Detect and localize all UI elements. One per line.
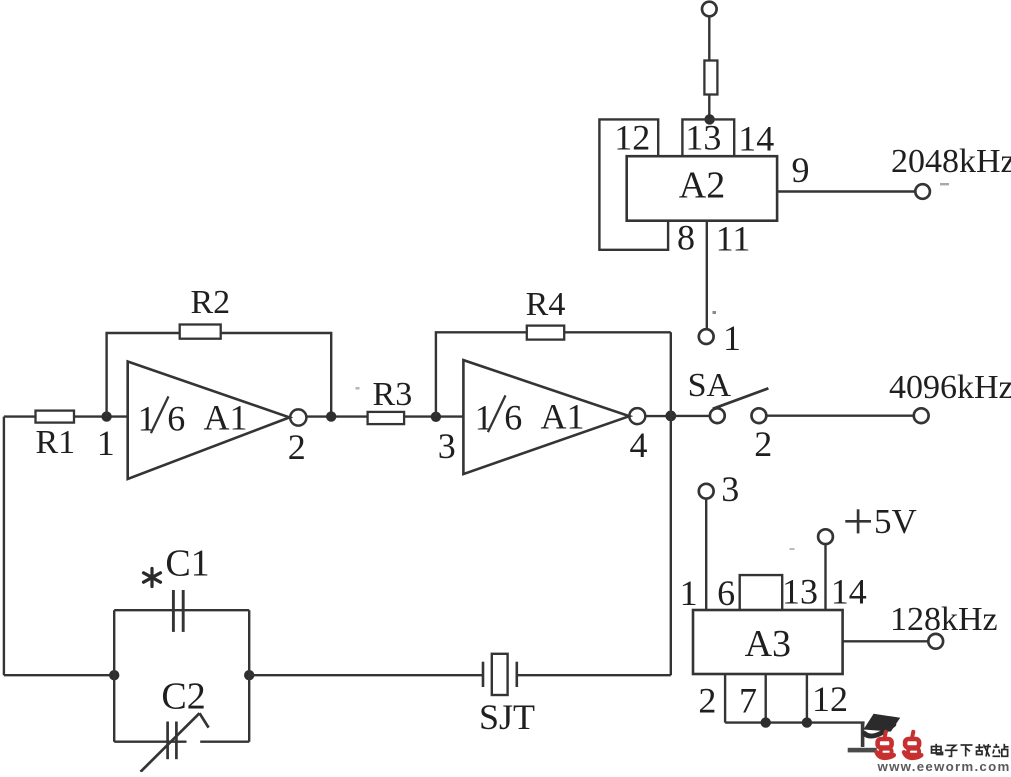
resistor R3 — [368, 412, 405, 424]
svg-text:14: 14 — [738, 119, 774, 159]
svg-text:A2: A2 — [679, 165, 725, 207]
C2 arrow head — [200, 713, 209, 727]
svg-text:A3: A3 — [745, 623, 791, 665]
wire tab joining A2 pins 13 and 14 — [682, 119, 734, 156]
svg-text:6: 6 — [504, 398, 522, 438]
wire tank right vertical — [248, 610, 250, 742]
svg-text:R3: R3 — [373, 376, 413, 413]
wire loop joining A2 pin 12 to pin 8 — [599, 119, 668, 249]
node left of tank — [109, 670, 119, 680]
scan speck above switch — [713, 311, 717, 314]
switch contact 3 — [699, 484, 714, 499]
crystal SJT body — [492, 654, 508, 695]
svg-text:13: 13 — [685, 118, 721, 158]
node right of tank — [244, 670, 254, 680]
wire ground bus below A3 — [725, 721, 865, 723]
junction pin7 on ground bus — [761, 717, 771, 727]
wire C2 branch right — [200, 741, 249, 743]
op-amp U A3 box — [693, 610, 843, 674]
wire A3 pin 7 down — [765, 674, 767, 723]
wire A2 pin 11 down to switch contact 1 — [706, 221, 708, 330]
wire feedback loop right of R4 — [564, 331, 671, 333]
eeworm logo: stand base plate — [848, 748, 877, 753]
capacitor C1 plates — [172, 590, 175, 632]
svg-text:11: 11 — [716, 219, 751, 259]
wire bottom left to tank — [4, 674, 114, 676]
wire R3 to inverter 2 input — [404, 415, 463, 417]
wire A2 pin 9 to 2048kHz terminal — [777, 190, 915, 192]
wire feedback loop left of R2 — [107, 333, 180, 417]
node 2 junction — [326, 411, 336, 421]
eeworm logo: red character chong 2 — [904, 732, 921, 758]
terminal +5V — [818, 529, 833, 544]
wire left vertical (input to C1/C2 tank) — [3, 417, 5, 676]
svg-text:2: 2 — [754, 424, 772, 464]
wire tab joining A3 pins 6 and 13 — [740, 575, 783, 610]
svg-text:1: 1 — [97, 423, 115, 463]
scan speck near R3 — [356, 387, 360, 390]
terminal 4096kHz — [914, 408, 929, 423]
wire main input left — [4, 415, 36, 417]
wire feedback loop left of R4 — [436, 332, 527, 416]
svg-text:www.eeworm.com: www.eeworm.com — [877, 759, 1011, 772]
svg-text:7: 7 — [739, 681, 757, 721]
eeworm logo: graduation cap board — [864, 714, 901, 732]
wire A3 pin 12 down — [806, 674, 808, 723]
terminal 2048kHz — [915, 184, 930, 199]
svg-text:6: 6 — [167, 399, 185, 439]
op-amp inverter 1 (1/6 A1) triangle — [128, 362, 290, 480]
svg-text:2: 2 — [698, 681, 716, 721]
op-amp U A2 box — [627, 156, 777, 221]
svg-text:128kHz: 128kHz — [890, 601, 998, 638]
svg-text:1: 1 — [138, 399, 156, 439]
asterisk mark for C1 — [144, 569, 161, 587]
wire tank left vertical — [113, 610, 115, 742]
svg-text:SA: SA — [688, 367, 732, 404]
svg-text:13: 13 — [782, 572, 818, 612]
wire R1 to inverter 1 input — [74, 415, 127, 417]
wire contact 3 down to A3 pin 1 — [705, 499, 707, 610]
svg-text:SJT: SJT — [479, 697, 535, 737]
wire C1 branch left — [114, 609, 249, 611]
node 4 junction — [665, 411, 676, 422]
inverter 1 output bubble — [290, 409, 306, 425]
glyph zhan — [993, 744, 1009, 757]
wire crystal to node 4 vertical — [517, 674, 671, 676]
svg-text:R4: R4 — [526, 286, 566, 323]
glyph dian — [932, 744, 943, 755]
wire C2 branch left — [114, 741, 186, 743]
wire terminal to resistor — [708, 16, 710, 60]
wire resistor to node — [708, 95, 710, 120]
junction pin12 on ground bus — [802, 717, 812, 727]
svg-text:2: 2 — [288, 427, 306, 467]
wire node 4 vertical from R4 loop down to crystal line — [670, 332, 672, 675]
svg-text:1: 1 — [680, 573, 698, 613]
switch SA blade — [713, 388, 769, 409]
svg-text:A1: A1 — [204, 398, 248, 438]
svg-text:1: 1 — [723, 318, 741, 358]
svg-text:4096kHz: 4096kHz — [889, 369, 1011, 406]
terminal top (power input) — [702, 2, 717, 17]
eeworm logo: cap brim — [865, 725, 894, 737]
wire contact 2 to 4096kHz terminal — [766, 415, 914, 417]
svg-text:3: 3 — [721, 469, 739, 509]
wire feedback loop right of R2 — [221, 333, 332, 417]
svg-text:5V: 5V — [874, 502, 917, 541]
label 1/6 A1 (inverter 2) — [475, 395, 585, 437]
glyph zi — [945, 745, 958, 756]
resistor R1 — [36, 411, 75, 423]
svg-text:C2: C2 — [161, 676, 205, 718]
svg-text:3: 3 — [438, 426, 456, 466]
svg-text:8: 8 — [677, 218, 695, 258]
svg-text:12: 12 — [614, 118, 650, 158]
wire inverter1 output to R3 — [306, 415, 367, 417]
wire tank to crystal — [249, 674, 483, 676]
resistor R4 — [527, 326, 564, 340]
svg-text:A1: A1 — [541, 397, 585, 437]
eeworm logo: red character chong 1 — [877, 732, 894, 758]
crystal SJT left electrode — [482, 662, 485, 687]
wire A3 pin 2 down — [724, 674, 726, 723]
switch SA pole contact — [710, 408, 725, 423]
svg-text:1: 1 — [475, 398, 493, 438]
crystal SJT right electrode — [515, 662, 518, 687]
inverter 2 output bubble — [629, 408, 645, 424]
svg-text:4: 4 — [630, 425, 648, 465]
node junction at A2 pins 13-14 — [704, 114, 714, 124]
wire inverter2 output to node 4 — [645, 415, 671, 417]
node 1 junction — [101, 411, 111, 421]
label 1/6 A1 (inverter 1) — [138, 396, 248, 438]
svg-text:6: 6 — [717, 573, 735, 613]
resistor (top, unlabeled) — [704, 61, 717, 95]
glyph zai — [976, 744, 992, 757]
svg-text:9: 9 — [792, 150, 810, 190]
eeworm logo: black text dian zi xia zai zhan — [932, 744, 1009, 757]
svg-text:R2: R2 — [190, 284, 230, 321]
resistor R2 — [180, 325, 221, 339]
svg-text:14: 14 — [831, 572, 867, 612]
wire node 4 to switch pole — [671, 415, 710, 417]
svg-text:R1: R1 — [35, 424, 75, 461]
svg-text:2048kHz: 2048kHz — [891, 143, 1011, 180]
glyph xia — [961, 745, 973, 757]
C2 variable arrow shaft — [141, 713, 200, 772]
capacitor C2 plates (variable) — [166, 722, 169, 760]
svg-text:12: 12 — [812, 679, 848, 719]
wire +5V to A3 pin 14 — [824, 544, 826, 610]
terminal 128kHz — [928, 634, 943, 649]
node 3 junction — [431, 412, 441, 422]
svg-text:C1: C1 — [165, 543, 209, 585]
eeworm logo: stand pole — [861, 723, 865, 747]
wire A3 output to 128kHz terminal — [843, 640, 929, 642]
scan speck left of +5V — [790, 548, 795, 550]
op-amp inverter 2 (1/6 A1) triangle — [463, 360, 629, 474]
label +5V — [845, 502, 916, 541]
switch contact 1 — [699, 329, 714, 344]
switch contact 2 — [752, 408, 767, 423]
scan speck near 2048kHz terminal — [940, 183, 949, 185]
